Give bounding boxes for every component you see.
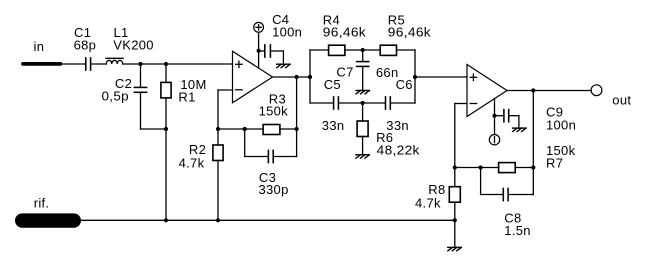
junction dot R2 at rail (216, 218, 220, 222)
svg-text:R1: R1 (178, 90, 195, 105)
power +V symbol for U1 (254, 22, 264, 32)
junction dot R7 right (531, 165, 535, 169)
capacitor C5 (334, 97, 339, 109)
node rif. (reference terminal) (15, 213, 81, 227)
svg-text:96,46k: 96,46k (388, 24, 431, 39)
svg-text:4.7k: 4.7k (179, 155, 205, 170)
inductor L1 (106, 58, 123, 64)
svg-text:33n: 33n (322, 118, 345, 133)
junction dot feedback row (216, 127, 220, 131)
wire feedback row right (280, 128, 297, 130)
junction dot twin-T output (413, 75, 417, 79)
capacitor C4 (259, 45, 284, 64)
svg-text:0,5p: 0,5p (102, 88, 129, 103)
svg-text:150k: 150k (259, 103, 289, 118)
wire ground rail (81, 219, 455, 221)
resistor R3 (263, 125, 280, 135)
junction dot R8 at rail (453, 218, 457, 222)
wire twin-T left column (309, 50, 311, 103)
wire R7 row (455, 167, 499, 169)
wire twin-T to U2 + input (415, 76, 467, 78)
wire output column down (532, 91, 534, 168)
wire U1 inverting input (218, 89, 233, 91)
junction dot C3 left tap (243, 127, 247, 131)
junction dot feedback right (295, 127, 299, 131)
wire feedback column to output (296, 77, 298, 129)
wire U2 power stem (494, 98, 496, 134)
power -V symbol for U2 (489, 135, 499, 145)
svg-text:C6: C6 (396, 77, 413, 92)
wire feedback row left (218, 128, 263, 130)
resistor R2 (213, 145, 223, 220)
svg-text:R7: R7 (546, 156, 563, 171)
wire inverting column down to R2 (217, 90, 219, 145)
wire C1 to L1 (92, 63, 107, 65)
svg-text:C5: C5 (324, 77, 341, 92)
junction dot R1 at rail (164, 218, 168, 222)
junction dot at R1 tap (164, 62, 168, 66)
svg-text:96,46k: 96,46k (323, 24, 366, 39)
wire U2 inverting input (455, 103, 467, 105)
wire bottom row left (310, 102, 333, 104)
svg-text:VK200: VK200 (113, 37, 154, 52)
wire twin-T right column (414, 50, 416, 103)
wire R5 to right column (397, 49, 416, 51)
ground (C9) (513, 128, 526, 131)
node in (input terminal) (23, 62, 61, 66)
junction dot at C2 tap (138, 62, 142, 66)
wire rail to ground (454, 220, 456, 247)
junction dot C7 tap (361, 48, 365, 52)
wire C2 bottom jog to R1 column (141, 128, 167, 130)
op-amp U2 (467, 65, 507, 117)
resistor R7 (499, 163, 516, 173)
junction dot C4 tap (257, 49, 261, 53)
wire R7 right (515, 167, 533, 169)
junction dot C9 tap (492, 114, 496, 118)
wire C5 to C6 (339, 102, 384, 104)
resistor R8 (449, 187, 460, 221)
ground (rail) (448, 247, 461, 250)
ground (C7) (356, 91, 369, 94)
capacitor C1 (86, 58, 91, 70)
capacitor C9 (495, 110, 519, 129)
resistor R4 (329, 45, 345, 55)
wire R4 to R5 (345, 49, 380, 51)
junction dot C8 left tap (479, 165, 483, 169)
capacitor C3 branch (245, 129, 297, 163)
ground (C4) (277, 64, 290, 67)
node out (terminal) (591, 85, 602, 96)
capacitor C2 (134, 64, 146, 129)
ground (R6) (356, 155, 369, 158)
wire in to C1 (63, 63, 85, 65)
wire inverting column down (454, 104, 456, 187)
junction dot R6 tap (361, 101, 365, 105)
wire L1 to U1 + input (123, 63, 233, 65)
svg-text:330p: 330p (259, 182, 289, 197)
svg-text:100n: 100n (272, 24, 302, 39)
junction dot output column (531, 88, 535, 92)
capacitor C7 (357, 50, 369, 91)
junction dot R7 row left (453, 165, 457, 169)
capacitor C8 branch (481, 168, 534, 201)
svg-text:4.7k: 4.7k (415, 196, 441, 211)
junction dot on U1 output (295, 75, 299, 79)
resistor R5 (380, 45, 396, 55)
capacitor C6 (386, 97, 391, 109)
junction dot on R1 column (164, 127, 168, 131)
svg-text:100n: 100n (546, 118, 576, 133)
wire U1 output (273, 76, 311, 78)
op-amp U1 (233, 51, 273, 103)
svg-text:1.5n: 1.5n (504, 223, 531, 238)
junction dot twin-T input (308, 75, 312, 79)
resistor R1 (161, 64, 171, 220)
wire C6 to right column (391, 102, 415, 104)
wire U2 output to out terminal (507, 90, 591, 92)
svg-text:48,22k: 48,22k (377, 142, 420, 157)
svg-text:out: out (612, 92, 631, 107)
resistor R6 (357, 103, 368, 155)
svg-text:rif.: rif. (34, 196, 50, 211)
wire +V to U1 top edge (258, 32, 260, 68)
wire top row to R4 (310, 49, 329, 51)
svg-text:68p: 68p (74, 37, 97, 52)
svg-text:in: in (34, 39, 45, 54)
